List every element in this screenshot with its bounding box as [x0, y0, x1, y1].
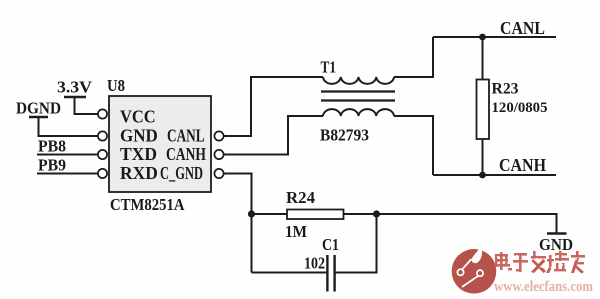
svg-text:U8: U8	[107, 76, 125, 95]
svg-text:PB9: PB9	[38, 156, 66, 175]
svg-text:GND: GND	[120, 126, 158, 146]
svg-text:B82793: B82793	[320, 126, 369, 145]
svg-text:DGND: DGND	[16, 99, 61, 118]
svg-text:CTM8251A: CTM8251A	[110, 195, 185, 214]
svg-text:www.elecfans.com: www.elecfans.com	[494, 279, 593, 295]
svg-text:CANH: CANH	[166, 144, 206, 164]
svg-text:120/0805: 120/0805	[492, 100, 548, 116]
svg-text:CANL: CANL	[167, 126, 205, 146]
svg-text:CANL: CANL	[500, 18, 545, 38]
svg-text:R23: R23	[492, 81, 519, 98]
svg-text:T1: T1	[321, 58, 337, 77]
svg-text:RXD: RXD	[120, 163, 158, 183]
svg-text:C1: C1	[322, 235, 339, 254]
svg-text:3.3V: 3.3V	[57, 78, 93, 97]
svg-text:GND: GND	[539, 235, 573, 254]
svg-text:VCC: VCC	[120, 107, 156, 127]
svg-text:CANH: CANH	[499, 155, 546, 175]
svg-text:TXD: TXD	[120, 144, 157, 164]
svg-text:1M: 1M	[285, 222, 307, 241]
svg-text:C_GND: C_GND	[160, 163, 203, 183]
svg-text:R24: R24	[286, 188, 315, 207]
svg-text:PB8: PB8	[38, 137, 66, 156]
svg-text:102: 102	[304, 254, 325, 273]
